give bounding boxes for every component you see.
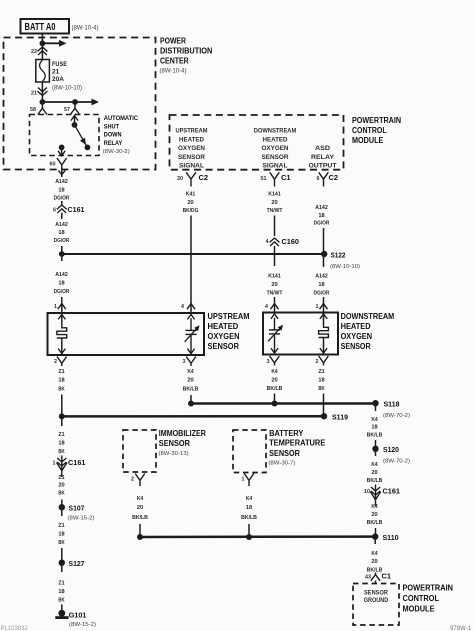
relay output wire down to pin 60 bbox=[58, 147, 65, 155]
wire stub into splice S107 bbox=[61, 500, 63, 508]
wire A142 from S122 toward downstream sensor bbox=[323, 254, 325, 267]
splice line from A142 branch to S122 bbox=[62, 253, 325, 255]
svg-text:S110: S110 bbox=[383, 533, 399, 542]
svg-text:S122: S122 bbox=[331, 250, 346, 259]
svg-text:BK/DG: BK/DG bbox=[183, 208, 199, 214]
wire stub into splice S120 bbox=[375, 440, 377, 449]
svg-text:SHUT: SHUT bbox=[104, 123, 119, 130]
svg-text:TN/WT: TN/WT bbox=[267, 208, 283, 214]
svg-text:30: 30 bbox=[177, 176, 183, 182]
svg-text:(8W-10-10): (8W-10-10) bbox=[52, 86, 82, 92]
svg-text:TN/WT: TN/WT bbox=[267, 291, 283, 297]
wire stub immobilizer into splice line bbox=[139, 524, 141, 537]
svg-text:S127: S127 bbox=[69, 559, 85, 568]
svg-text:BK/LB: BK/LB bbox=[367, 520, 383, 526]
wire label Z1 18 BK below downstream pin 2 bbox=[318, 369, 325, 392]
svg-text:K4: K4 bbox=[271, 369, 278, 375]
svg-text:HEATED: HEATED bbox=[179, 137, 205, 143]
splice S120 bbox=[372, 446, 378, 452]
svg-text:BATTERY: BATTERY bbox=[269, 429, 304, 438]
svg-text:Z1: Z1 bbox=[58, 369, 65, 375]
connector chevrons at pin 22 bbox=[37, 47, 47, 55]
splice S118 bbox=[372, 400, 378, 406]
svg-text:21: 21 bbox=[31, 91, 37, 97]
svg-text:UPSTREAM: UPSTREAM bbox=[208, 312, 250, 321]
svg-text:SENSOR: SENSOR bbox=[208, 342, 240, 351]
svg-text:A142: A142 bbox=[55, 179, 68, 185]
svg-text:K4: K4 bbox=[371, 462, 378, 468]
svg-text:A142: A142 bbox=[55, 222, 68, 228]
svg-text:18: 18 bbox=[58, 230, 65, 236]
svg-text:Z1: Z1 bbox=[58, 432, 65, 438]
svg-text:58: 58 bbox=[30, 107, 36, 113]
svg-text:K41: K41 bbox=[186, 191, 196, 197]
svg-text:(8W-70-2): (8W-70-2) bbox=[383, 413, 410, 419]
wire stub into splice S110 bbox=[375, 528, 377, 537]
wire label K4 20 BK/LB below downstream pin 3 bbox=[267, 369, 283, 392]
splice S122 bbox=[321, 251, 327, 257]
svg-text:18: 18 bbox=[58, 281, 65, 287]
inline connector C161 right bbox=[375, 485, 377, 507]
junction dot battery temperature on splice line bbox=[246, 534, 252, 540]
wire stub below S127 bbox=[61, 563, 63, 572]
label IMMOBILIZER SENSOR bbox=[159, 429, 207, 457]
wire label K4 18 BK/LB battery temperature bbox=[241, 496, 257, 521]
svg-text:S119: S119 bbox=[332, 413, 348, 422]
svg-text:20: 20 bbox=[371, 512, 378, 518]
svg-text:20: 20 bbox=[271, 282, 278, 288]
svg-text:6: 6 bbox=[53, 207, 56, 213]
wire stub K141 into downstream sensor pin 4 bbox=[274, 297, 276, 313]
connector chevrons at pin 21 bbox=[37, 88, 47, 96]
wire stub battery temperature into splice line bbox=[248, 524, 250, 537]
pin 2 terminal downstream sensor bbox=[319, 356, 329, 366]
svg-text:OUTPUT: OUTPUT bbox=[309, 164, 337, 170]
wire from fuse 21 to relay feed line bbox=[41, 82, 43, 102]
wire label K4 20 BK/LB below upstream pin 3 bbox=[183, 369, 199, 392]
immobilizer sensor dashed box bbox=[123, 430, 156, 472]
splice line to S119 bbox=[62, 415, 324, 418]
svg-text:HEATED: HEATED bbox=[341, 322, 371, 331]
svg-text:18: 18 bbox=[318, 213, 325, 219]
svg-text:BK: BK bbox=[58, 540, 65, 546]
svg-text:18: 18 bbox=[58, 440, 65, 446]
splice S127 bbox=[59, 560, 65, 566]
svg-text:DOWNSTREAM: DOWNSTREAM bbox=[254, 129, 297, 135]
battery temperature sensor dashed box bbox=[233, 430, 266, 473]
svg-text:2: 2 bbox=[131, 477, 134, 483]
svg-text:20: 20 bbox=[371, 559, 378, 565]
svg-text:20: 20 bbox=[187, 200, 194, 206]
ground G101 bbox=[55, 610, 68, 618]
wire Z1 from upstream pin 2 to junction bbox=[61, 395, 63, 417]
label UPSTREAM HEATED OXYGEN SENSOR bbox=[208, 312, 250, 351]
svg-text:(8W-15-2): (8W-15-2) bbox=[68, 516, 95, 522]
svg-text:3: 3 bbox=[267, 359, 270, 365]
svg-text:3: 3 bbox=[183, 359, 186, 365]
svg-text:S118: S118 bbox=[384, 400, 400, 409]
svg-text:18: 18 bbox=[58, 188, 65, 194]
svg-text:BK/LB: BK/LB bbox=[367, 568, 383, 574]
svg-text:C2: C2 bbox=[199, 173, 209, 182]
svg-text:ASD: ASD bbox=[315, 146, 331, 152]
svg-text:20A: 20A bbox=[52, 76, 64, 83]
svg-text:18: 18 bbox=[318, 377, 325, 383]
svg-text:Z1: Z1 bbox=[58, 475, 65, 481]
svg-text:2: 2 bbox=[54, 359, 57, 365]
svg-text:4: 4 bbox=[265, 304, 268, 310]
wire label Z1 18 BK below upstream pin 2 bbox=[58, 369, 65, 392]
svg-text:BK/LB: BK/LB bbox=[183, 386, 199, 392]
svg-text:BATT A0: BATT A0 bbox=[25, 22, 56, 33]
pin 60 terminal leaving relay bbox=[57, 158, 67, 177]
svg-text:Z1: Z1 bbox=[318, 369, 325, 375]
svg-text:A142: A142 bbox=[315, 274, 328, 280]
svg-text:FUSE: FUSE bbox=[52, 61, 68, 68]
downstream sensor heater element bbox=[319, 313, 329, 355]
svg-text:SENSOR: SENSOR bbox=[159, 439, 190, 448]
wire stub into splice S127 bbox=[61, 548, 63, 563]
label AUTOMATIC SHUT DOWN RELAY bbox=[103, 115, 139, 155]
svg-text:C1: C1 bbox=[281, 173, 291, 182]
svg-text:K141: K141 bbox=[268, 274, 281, 280]
junction dot at pin 57 branch bbox=[72, 99, 78, 105]
upstream sensor sensing cell bbox=[185, 314, 200, 355]
junction dot left Z1 on splice line to S119 bbox=[59, 413, 65, 419]
upstream heated oxygen sensor box bbox=[48, 313, 205, 355]
svg-text:BK: BK bbox=[58, 386, 65, 392]
svg-text:18: 18 bbox=[318, 282, 325, 288]
svg-text:DG/OR: DG/OR bbox=[314, 221, 330, 227]
svg-text:SENSOR: SENSOR bbox=[341, 342, 371, 351]
wire label K141 20 TN/WT lower bbox=[267, 274, 283, 297]
wire label A142 18 DG/OR from pin 6 bbox=[314, 205, 330, 227]
svg-text:TEMPERATURE: TEMPERATURE bbox=[269, 439, 326, 448]
splice S110 bbox=[372, 533, 378, 539]
svg-text:51: 51 bbox=[261, 176, 267, 182]
svg-text:20: 20 bbox=[371, 470, 378, 476]
label ASD RELAY OUTPUT bbox=[309, 146, 337, 170]
wire label Z1 18 BK above S127 bbox=[58, 523, 65, 546]
inline connector C160 bbox=[270, 238, 280, 246]
wire stub into ground G101 bbox=[61, 605, 63, 612]
junction dot at relay feed line left bbox=[40, 99, 46, 105]
svg-text:DOWN: DOWN bbox=[104, 132, 122, 139]
relay internal input from pin 57 bbox=[71, 115, 78, 125]
wire from BATT A0 down to fuse 21 bbox=[41, 34, 43, 60]
svg-text:C2: C2 bbox=[329, 173, 339, 182]
pin 51 terminal C1 bbox=[270, 172, 280, 186]
svg-text:A142: A142 bbox=[315, 205, 328, 211]
pin 1 terminal battery temperature sensor bbox=[244, 474, 254, 487]
powertrain control module dashed box bottom bbox=[353, 584, 399, 626]
svg-text:CENTER: CENTER bbox=[160, 57, 189, 66]
svg-text:DOWNSTREAM: DOWNSTREAM bbox=[341, 312, 395, 321]
svg-text:Z1: Z1 bbox=[58, 581, 65, 587]
downstream heated oxygen sensor box bbox=[263, 313, 338, 355]
svg-text:SENSOR: SENSOR bbox=[178, 155, 206, 161]
svg-text:K4: K4 bbox=[371, 417, 378, 423]
label FUSE 21 20A bbox=[52, 61, 68, 83]
svg-text:57: 57 bbox=[64, 107, 70, 113]
svg-text:S120: S120 bbox=[383, 445, 399, 454]
pin 1 terminal chevron downstream sensor bbox=[320, 304, 328, 310]
svg-text:18: 18 bbox=[246, 505, 253, 511]
svg-text:BK/LB: BK/LB bbox=[132, 515, 148, 521]
powertrain control module dashed box top bbox=[170, 115, 344, 170]
wire stub into splice junction bbox=[61, 246, 63, 261]
label POWERTRAIN CONTROL MODULE top bbox=[352, 116, 401, 145]
svg-text:20: 20 bbox=[58, 483, 65, 489]
label BATTERY TEMPERATURE SENSOR bbox=[268, 429, 326, 467]
pin 2 terminal immobilizer sensor bbox=[135, 474, 145, 487]
svg-text:AUTOMATIC: AUTOMATIC bbox=[104, 115, 139, 122]
wire K141 from C160 across splice line bbox=[274, 246, 276, 266]
label UPSTREAM HEATED OXYGEN SENSOR SIGNAL bbox=[176, 129, 208, 170]
svg-text:DG/OR: DG/OR bbox=[54, 238, 70, 244]
downstream sensor sensing cell bbox=[268, 314, 283, 355]
svg-text:18: 18 bbox=[58, 589, 65, 595]
svg-text:C1: C1 bbox=[382, 571, 392, 580]
svg-text:22: 22 bbox=[31, 49, 37, 55]
svg-text:K141: K141 bbox=[268, 191, 281, 197]
svg-text:SENSOR: SENSOR bbox=[269, 449, 300, 458]
svg-text:6: 6 bbox=[317, 176, 320, 182]
pin 3 terminal downstream sensor bbox=[270, 356, 280, 366]
svg-text:K4: K4 bbox=[371, 504, 378, 510]
svg-text:SENSOR: SENSOR bbox=[262, 155, 290, 161]
wire label K4 18 BK/LB below S118 bbox=[367, 417, 383, 439]
svg-text:MODULE: MODULE bbox=[403, 604, 435, 614]
wire label A142 18 DG/OR below relay bbox=[54, 179, 70, 202]
svg-text:43: 43 bbox=[365, 574, 371, 580]
svg-text:POWERTRAIN: POWERTRAIN bbox=[352, 116, 401, 125]
relay feed line with arrow right bbox=[42, 99, 99, 106]
svg-text:20: 20 bbox=[137, 505, 144, 511]
svg-text:DG/OR: DG/OR bbox=[314, 291, 330, 297]
label POWERTRAIN CONTROL MODULE bottom bbox=[403, 583, 454, 614]
junction dot immobilizer on splice line to S110 bbox=[137, 534, 143, 540]
svg-text:GROUND: GROUND bbox=[364, 598, 389, 604]
wire stub below S110 bbox=[374, 537, 376, 544]
svg-text:18: 18 bbox=[58, 532, 65, 538]
svg-text:C161: C161 bbox=[68, 458, 86, 467]
pin 3 terminal upstream sensor bbox=[186, 357, 196, 367]
svg-text:20: 20 bbox=[187, 378, 194, 384]
wire stub below S107 bbox=[61, 507, 63, 516]
wire branch arrow right from battery feed bbox=[42, 40, 66, 47]
svg-text:RELAY: RELAY bbox=[311, 155, 334, 161]
splice S107 bbox=[59, 504, 65, 510]
wire Z1 from downstream pin 2 to splice S119 bbox=[323, 394, 325, 417]
splice line from immobilizer and battery temperature to S110 bbox=[140, 535, 375, 538]
svg-text:IMMOBILIZER: IMMOBILIZER bbox=[159, 429, 206, 438]
svg-text:Z1: Z1 bbox=[58, 523, 65, 529]
svg-text:(8W-10-4): (8W-10-4) bbox=[160, 69, 187, 75]
svg-text:UPSTREAM: UPSTREAM bbox=[176, 129, 208, 135]
pin 4 terminal chevron downstream sensor bbox=[271, 304, 279, 310]
pin 30 terminal C2 bbox=[186, 172, 196, 186]
svg-text:978W-1: 978W-1 bbox=[450, 626, 472, 631]
svg-text:(8W-30-13): (8W-30-13) bbox=[159, 451, 189, 457]
wire label A142 18 DG/OR above upstream sensor bbox=[54, 272, 70, 295]
svg-text:MODULE: MODULE bbox=[352, 136, 384, 145]
svg-text:1: 1 bbox=[242, 477, 245, 483]
svg-text:1: 1 bbox=[316, 304, 319, 310]
svg-text:20: 20 bbox=[271, 200, 278, 206]
svg-text:RELAY: RELAY bbox=[104, 140, 123, 147]
wire stub below S118 bbox=[375, 403, 377, 411]
svg-text:1: 1 bbox=[53, 461, 56, 467]
svg-text:BK/LB: BK/LB bbox=[367, 478, 383, 484]
pin 6 terminal C2 bbox=[319, 172, 329, 186]
svg-text:HEATED: HEATED bbox=[263, 137, 289, 143]
power distribution center dashed box bbox=[4, 38, 156, 170]
wire label K4 20 BK/LB immobilizer bbox=[132, 496, 148, 521]
wire label K4 20 BK/LB below S120 bbox=[367, 462, 383, 484]
svg-text:DISTRIBUTION: DISTRIBUTION bbox=[160, 47, 213, 56]
svg-text:BK/LB: BK/LB bbox=[267, 386, 283, 392]
pin 4 terminal chevron upstream sensor bbox=[187, 304, 195, 310]
wire label K4 20 BK/LB above S110 bbox=[367, 504, 383, 526]
svg-text:OXYGEN: OXYGEN bbox=[262, 146, 289, 152]
svg-text:(8W-70-2): (8W-70-2) bbox=[383, 459, 410, 465]
svg-text:CONTROL: CONTROL bbox=[352, 126, 387, 135]
wire label Z1 20 BK below C161 bbox=[58, 475, 65, 497]
pin 2 terminal upstream sensor bbox=[57, 357, 67, 367]
relay switch arm diagonal bbox=[75, 125, 88, 147]
svg-text:BK: BK bbox=[58, 449, 65, 455]
svg-text:K4: K4 bbox=[137, 496, 144, 502]
wire label K41 20 BK/DG bbox=[183, 191, 199, 214]
pin 1 terminal chevron upstream sensor bbox=[58, 297, 66, 313]
svg-text:BK: BK bbox=[58, 490, 65, 496]
junction dot on A142 branch bbox=[59, 251, 65, 257]
svg-text:4: 4 bbox=[266, 239, 269, 245]
wire label Z1 18 BK below junction bbox=[58, 432, 65, 455]
svg-text:POWERTRAIN: POWERTRAIN bbox=[403, 583, 454, 593]
svg-text:K4: K4 bbox=[371, 551, 378, 557]
svg-text:CONTROL: CONTROL bbox=[403, 593, 440, 603]
label DOWNSTREAM HEATED OXYGEN SENSOR bbox=[341, 312, 395, 351]
wire K41 from PCM to upstream sensor pin 4 bbox=[190, 216, 192, 314]
svg-text:SENSOR: SENSOR bbox=[364, 590, 389, 596]
fuse 21 20A bbox=[36, 60, 50, 83]
wire A142 from PCM pin 6 to splice S122 bbox=[323, 228, 325, 254]
svg-text:21: 21 bbox=[52, 69, 60, 76]
svg-text:(8W-10-10): (8W-10-10) bbox=[330, 264, 360, 270]
splice S119 bbox=[321, 413, 327, 419]
svg-text:BK/LB: BK/LB bbox=[241, 515, 257, 521]
wire label A142 18 DG/OR above downstream sensor bbox=[314, 274, 330, 297]
wire stub below S120 bbox=[375, 449, 377, 456]
svg-text:2: 2 bbox=[316, 359, 319, 365]
automatic shut down relay dashed box bbox=[30, 115, 100, 156]
pin 57 terminal into relay bbox=[70, 102, 79, 115]
wire stub A142 into downstream sensor pin 1 bbox=[323, 297, 325, 313]
junction dot K4 upstream on splice line to S118 bbox=[188, 401, 194, 407]
svg-text:DG/OR: DG/OR bbox=[54, 289, 70, 295]
pin 58 terminal into relay bbox=[38, 102, 47, 115]
svg-text:OXYGEN: OXYGEN bbox=[341, 332, 373, 341]
svg-text:SIGNAL: SIGNAL bbox=[179, 164, 204, 170]
svg-text:C161: C161 bbox=[383, 487, 401, 496]
connector C1 into PCM bbox=[371, 573, 380, 584]
wire label K4 20 BK/LB below S110 bbox=[367, 551, 383, 574]
label DOWNSTREAM HEATED OXYGEN SENSOR SIGNAL bbox=[254, 129, 297, 170]
inline connector C161 lower left bbox=[61, 456, 63, 478]
svg-text:(8W-10-4): (8W-10-4) bbox=[72, 26, 99, 32]
svg-text:C160: C160 bbox=[282, 237, 300, 246]
battery feed node BATT A0 bbox=[21, 19, 70, 34]
wire label K141 20 TN/WT upper bbox=[267, 191, 283, 214]
inline connector C161 upper bbox=[57, 201, 67, 219]
svg-text:10: 10 bbox=[364, 489, 370, 495]
svg-text:BK/LB: BK/LB bbox=[367, 432, 383, 438]
svg-text:S107: S107 bbox=[69, 503, 85, 512]
svg-text:18: 18 bbox=[58, 378, 65, 384]
junction dot K4 downstream on splice line bbox=[272, 401, 278, 407]
svg-text:K4: K4 bbox=[187, 369, 194, 375]
svg-text:(8W-30-7): (8W-30-7) bbox=[268, 461, 295, 467]
svg-text:HEATED: HEATED bbox=[208, 322, 239, 331]
svg-text:A142: A142 bbox=[55, 272, 68, 278]
svg-text:C161: C161 bbox=[68, 205, 85, 214]
svg-text:BK: BK bbox=[318, 386, 325, 392]
svg-text:OXYGEN: OXYGEN bbox=[208, 332, 240, 341]
svg-text:K4: K4 bbox=[246, 496, 253, 502]
wire stub K4 into splice line bbox=[190, 395, 192, 404]
wire label Z1 18 BK above G101 bbox=[58, 581, 65, 604]
svg-text:PL103032: PL103032 bbox=[1, 626, 29, 631]
svg-text:1: 1 bbox=[54, 304, 57, 310]
wire stub K4 downstream into splice line bbox=[274, 394, 276, 404]
svg-text:20: 20 bbox=[271, 377, 278, 383]
svg-text:(8W-30-2): (8W-30-2) bbox=[103, 149, 130, 155]
svg-text:(8W-15-2): (8W-15-2) bbox=[69, 622, 96, 628]
svg-text:SIGNAL: SIGNAL bbox=[263, 164, 288, 170]
svg-text:POWER: POWER bbox=[160, 37, 186, 46]
svg-text:G101: G101 bbox=[69, 611, 87, 620]
svg-text:60: 60 bbox=[50, 162, 56, 168]
relay switch common dot bbox=[72, 122, 78, 128]
svg-text:DG/OR: DG/OR bbox=[54, 196, 70, 202]
junction dot below BATT A0 bbox=[40, 40, 46, 46]
svg-text:BK: BK bbox=[58, 598, 65, 604]
wire Z1 junction to connector C161 bbox=[61, 416, 63, 426]
svg-text:4: 4 bbox=[181, 304, 184, 310]
relay output dot bbox=[59, 145, 65, 151]
relay switch contact dot bbox=[85, 145, 91, 151]
svg-text:18: 18 bbox=[371, 425, 378, 431]
upstream sensor heater element bbox=[57, 313, 67, 355]
label POWER DISTRIBUTION CENTER bbox=[160, 37, 213, 75]
splice line to S118 bbox=[191, 402, 376, 405]
label SENSOR GROUND bbox=[364, 590, 389, 604]
wire label A142 18 DG/OR above splice line bbox=[54, 222, 70, 244]
svg-text:OXYGEN: OXYGEN bbox=[178, 146, 205, 152]
wire K141 from PCM to C160 bbox=[274, 216, 276, 237]
